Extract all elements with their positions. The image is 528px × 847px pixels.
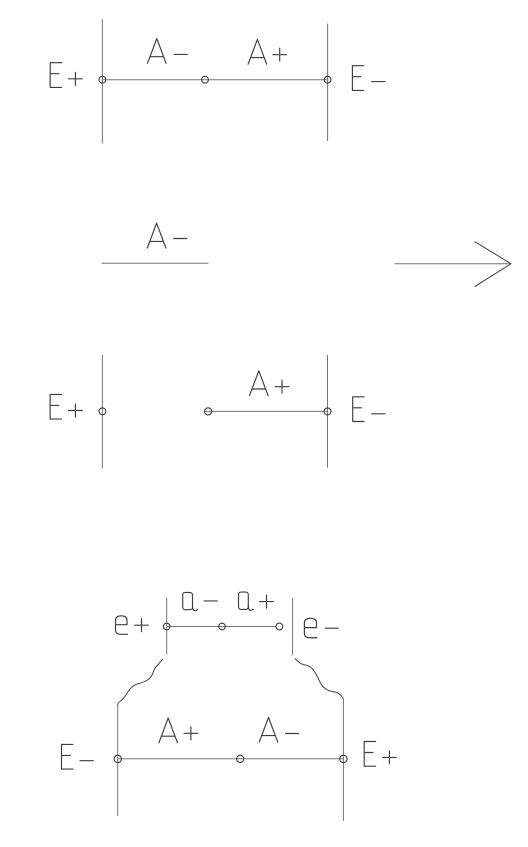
label e- (minicell right electrode) [304, 618, 338, 637]
wire: right break squiggle connector [295, 659, 344, 700]
node: cell2 left electrode junction [99, 408, 106, 415]
wire: bigcell horizontal conductor [118, 758, 344, 760]
wire: cell2 right electrode vertical [327, 356, 329, 468]
wire: cell2 left electrode vertical [101, 355, 103, 468]
label E+ (bigcell right electrode) [364, 742, 396, 767]
label A- (bigcell right segment) [259, 717, 299, 742]
wire: cell1 horizontal conductor [102, 79, 327, 81]
node: cell1 left junction [99, 76, 106, 83]
label E- (cell2 right electrode) [353, 397, 385, 422]
wire: detached A- segment [102, 262, 208, 264]
wire: minicell right electrode vertical [292, 599, 294, 656]
wire: minicell horizontal conductor [167, 626, 276, 628]
wire: cell1 right electrode vertical [327, 24, 329, 141]
node: bigcell right junction [340, 755, 347, 762]
node: cell1 right junction [324, 76, 331, 83]
node: minicell left junction [163, 623, 170, 630]
label E- (cell1 right electrode) [352, 66, 385, 91]
node: cell2 right junction [324, 408, 331, 415]
node: minicell right end [276, 623, 283, 630]
label A+ (bigcell left segment) [159, 718, 198, 743]
label e+ (minicell left electrode) [116, 616, 149, 635]
label A+ (cell1 right segment) [248, 39, 287, 64]
label a+ (minicell right segment) [239, 592, 274, 610]
node: cell2 segment left end [205, 408, 212, 415]
node: cell1 middle junction [202, 76, 209, 83]
wire: cell1 left electrode vertical [101, 20, 103, 143]
wire: cell2 horizontal conductor [205, 410, 328, 412]
node: bigcell middle junction [237, 755, 244, 762]
wire: minicell left electrode vertical [166, 598, 168, 654]
arrow head [475, 242, 511, 287]
label A- (cell1 left segment) [148, 39, 188, 64]
wire: bigcell right electrode vertical [342, 699, 344, 820]
label E+ (cell2 left electrode) [50, 394, 82, 419]
label A+ (cell2 segment) [249, 371, 288, 396]
label A- (detached segment) [147, 223, 187, 248]
label E- (bigcell left electrode) [62, 744, 94, 769]
label E+ (cell1 left electrode) [50, 63, 82, 88]
node: minicell middle junction [219, 623, 226, 630]
arrow shaft [395, 263, 511, 265]
wire: bigcell left electrode vertical [117, 704, 119, 815]
label a- (minicell left segment) [183, 592, 218, 610]
node: bigcell left junction [114, 755, 121, 762]
wire: left break squiggle connector [118, 659, 163, 705]
